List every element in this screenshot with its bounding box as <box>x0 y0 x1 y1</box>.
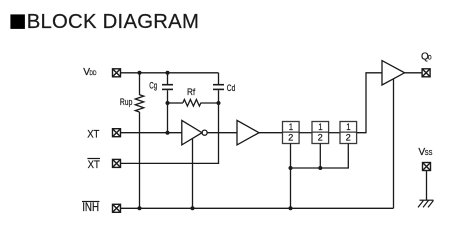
label U4 digits <box>318 122 323 144</box>
wire U3 enable <box>290 144 292 209</box>
svg-text:XT: XT <box>87 128 99 140</box>
wire inverter inhibit <box>192 139 194 209</box>
svg-text:Cd: Cd <box>227 83 236 93</box>
node dot Rf left <box>166 101 170 105</box>
svg-text:BLOCK DIAGRAM: BLOCK DIAGRAM <box>27 11 199 33</box>
op-amp U1 inverter <box>182 120 207 144</box>
label U3 digits <box>288 122 293 144</box>
wire Rup to INH line <box>139 112 141 208</box>
wire to Q0 <box>405 72 423 74</box>
svg-text:1: 1 <box>289 122 293 133</box>
wire U4 enable <box>319 144 321 169</box>
title BLOCK DIAGRAM <box>10 11 199 33</box>
wire node B vertical <box>218 103 220 163</box>
pin XT <box>113 129 121 137</box>
pin INH <box>113 204 121 212</box>
svg-text:1: 1 <box>346 122 350 133</box>
label XTbar <box>87 158 100 171</box>
node dot Rf right <box>217 101 221 105</box>
divider block U3 1/2 <box>283 122 300 144</box>
resistor Rf <box>168 100 219 107</box>
label Q0 <box>421 51 432 62</box>
svg-text:INH: INH <box>82 202 99 214</box>
svg-text:0: 0 <box>428 55 432 62</box>
svg-text:2: 2 <box>318 132 323 143</box>
resistor Rup <box>135 73 143 112</box>
label U5 digits <box>346 122 351 144</box>
wire U4-U5 <box>329 132 340 134</box>
capacitor Cd <box>213 73 224 103</box>
node dot top rail / Rup <box>138 71 142 75</box>
svg-text:Rup: Rup <box>120 97 132 107</box>
svg-text:XT: XT <box>88 159 100 171</box>
wire node A vertical <box>167 103 169 133</box>
node dot INH-Rup <box>138 206 142 210</box>
label INHbar <box>82 201 99 214</box>
svg-text:2: 2 <box>346 132 351 143</box>
label VDD <box>83 67 96 78</box>
label Cd <box>227 83 236 93</box>
wire divider out to output buffer <box>357 73 382 133</box>
node dot XT line <box>166 131 170 135</box>
label VSS <box>418 147 432 158</box>
pin XTbar <box>113 159 121 167</box>
divider block U4 1/2 <box>312 122 329 144</box>
node dot INH-inverter <box>191 206 195 210</box>
op-amp U2 buffer <box>237 120 259 144</box>
node dot INH-divider <box>289 206 293 210</box>
label XT <box>87 128 99 140</box>
svg-text:1: 1 <box>318 122 322 133</box>
capacitor Cg <box>162 73 173 103</box>
wire XTbar line <box>121 162 220 164</box>
divider block U5 1/2 <box>340 122 357 144</box>
svg-text:Rf: Rf <box>187 87 196 97</box>
wire VSS lead <box>426 171 428 201</box>
wire inverter output <box>207 132 237 134</box>
label Rup <box>120 97 132 107</box>
svg-text:SS: SS <box>425 150 433 157</box>
pin Q0 <box>422 69 430 77</box>
op-amp U6 output buffer <box>382 61 405 85</box>
wire VDD top rail <box>121 72 219 74</box>
wire buffer2 to divider <box>259 132 283 134</box>
wire XT line <box>121 132 182 134</box>
node dot enable bus 2 <box>318 166 322 170</box>
svg-text:Cg: Cg <box>149 81 157 91</box>
node dot enable bus 1 <box>289 166 293 170</box>
label Cg <box>149 81 157 91</box>
pin VDD <box>113 69 121 77</box>
svg-text:DD: DD <box>90 70 97 77</box>
ground symbol <box>418 200 434 207</box>
wire INH line <box>121 207 394 209</box>
pin VSS <box>423 163 431 171</box>
node dot top rail / Cg <box>166 71 170 75</box>
wire output buffer inhibit <box>393 79 395 209</box>
label Rf <box>187 87 196 97</box>
wire U5 enable <box>291 144 349 169</box>
svg-text:2: 2 <box>288 132 293 143</box>
wire U3-U4 <box>299 132 312 134</box>
